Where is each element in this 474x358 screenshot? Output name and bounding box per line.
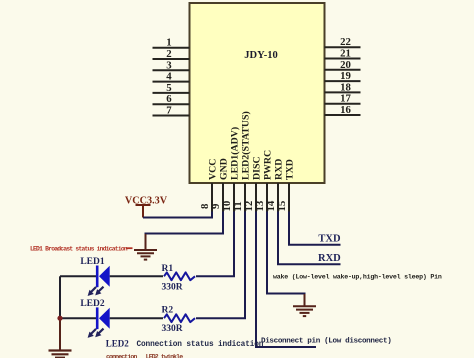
annotation LED1 broadcast — [30, 246, 133, 253]
svg-text:TXD: TXD — [284, 159, 295, 180]
svg-text:LED2: LED2 — [106, 339, 130, 349]
pin 6 — [153, 93, 190, 105]
pin 11 LED2(STATUS) — [232, 111, 251, 212]
wire pin9 to ground — [146, 212, 224, 237]
svg-text:VCC: VCC — [207, 159, 218, 180]
ground (LED bus) — [49, 351, 72, 358]
svg-text:DISC: DISC — [251, 156, 262, 180]
pin 2 — [153, 48, 190, 60]
ground (GND pin) — [134, 234, 157, 260]
pin 17 — [325, 93, 361, 105]
svg-text:19: 19 — [340, 70, 351, 82]
svg-text:LED2(STATUS): LED2(STATUS) — [240, 111, 251, 180]
pin 5 — [153, 82, 190, 94]
svg-text:1: 1 — [166, 37, 171, 49]
wire LED1 to R1 — [110, 275, 163, 277]
pin 22 — [325, 36, 361, 48]
svg-text:LED2: LED2 — [80, 299, 105, 309]
pin 7 — [153, 105, 190, 117]
svg-text:6: 6 — [166, 93, 172, 105]
pin 16 — [325, 104, 361, 116]
pin 18 — [325, 81, 361, 93]
svg-text:20: 20 — [340, 59, 351, 71]
op-amp U1 module body JDY-10 — [190, 3, 325, 183]
ground (PWRC) — [293, 294, 316, 316]
svg-text:connection LED2 twinkle: connection LED2 twinkle — [106, 354, 183, 358]
svg-text:RXD: RXD — [273, 159, 284, 180]
svg-text:wake (Low-level wake-up,high-l: wake (Low-level wake-up,high-level sleep… — [273, 274, 442, 281]
svg-text:3: 3 — [166, 59, 172, 71]
resistor R2 — [164, 314, 195, 322]
svg-text:2: 2 — [166, 48, 171, 60]
svg-text:JDY-10: JDY-10 — [244, 50, 277, 61]
svg-text:GND: GND — [218, 158, 229, 180]
svg-text:330R: 330R — [162, 282, 183, 292]
resistor R1 — [164, 272, 195, 280]
power VCC3.3V symbol — [125, 196, 168, 218]
annotation LED2 connection — [106, 339, 264, 349]
svg-text:LED1(ADV): LED1(ADV) — [229, 127, 240, 180]
pin 15 TXD — [276, 159, 295, 212]
svg-text:LED1: LED1 — [80, 257, 105, 267]
pin 12 DISC — [243, 156, 262, 212]
pin 14 RXD — [265, 159, 284, 212]
svg-text:PWRC: PWRC — [262, 150, 273, 180]
svg-text:330R: 330R — [162, 324, 183, 334]
pin 4 — [153, 71, 190, 83]
svg-text:Disconnect pin (Low disconnect: Disconnect pin (Low disconnect) — [261, 338, 391, 346]
svg-text:RXD: RXD — [318, 253, 341, 264]
wire LED2 to R2 — [110, 317, 163, 319]
pin 13 PWRC — [254, 150, 273, 212]
svg-text:4: 4 — [166, 71, 172, 83]
pin 9 GND — [210, 158, 229, 212]
pin 8 VCC — [199, 159, 218, 212]
svg-text:LED1 Broadcast status indicati: LED1 Broadcast status indication — [30, 246, 128, 253]
wire pin14 RXD — [278, 212, 341, 265]
svg-text:15: 15 — [276, 201, 288, 212]
pin 1 — [153, 37, 190, 49]
pin 21 — [325, 48, 361, 60]
svg-text:22: 22 — [340, 36, 351, 48]
pin 10 LED1(ADV) — [221, 127, 240, 212]
svg-text:7: 7 — [166, 105, 172, 117]
svg-text:5: 5 — [166, 82, 171, 94]
wire LED2 row left — [60, 317, 96, 319]
LED D1 symbol — [88, 266, 110, 297]
svg-text:Connection status indication: Connection status indication — [137, 341, 264, 349]
svg-text:TXD: TXD — [318, 234, 341, 245]
pin 20 — [325, 59, 361, 71]
wire pin15 TXD — [289, 212, 341, 245]
pin 19 — [325, 70, 361, 82]
wire bus to ground — [59, 318, 61, 350]
svg-text:21: 21 — [340, 48, 351, 60]
wire pin8 to VCC — [143, 212, 212, 218]
wire R2 to pin11 — [196, 212, 245, 319]
LED D2 symbol — [88, 307, 110, 338]
wire R1 to pin10 — [196, 212, 234, 277]
svg-text:16: 16 — [340, 104, 351, 116]
svg-text:17: 17 — [340, 93, 351, 105]
wire LED bus vertical — [59, 276, 61, 318]
wire pin13 PWRC to ground — [267, 212, 305, 297]
wire pin12 DISC — [256, 212, 316, 348]
junction bus/LED2 — [57, 316, 62, 321]
svg-text:18: 18 — [340, 81, 351, 93]
wire LED1 row left — [60, 275, 96, 277]
pin 3 — [153, 59, 190, 71]
